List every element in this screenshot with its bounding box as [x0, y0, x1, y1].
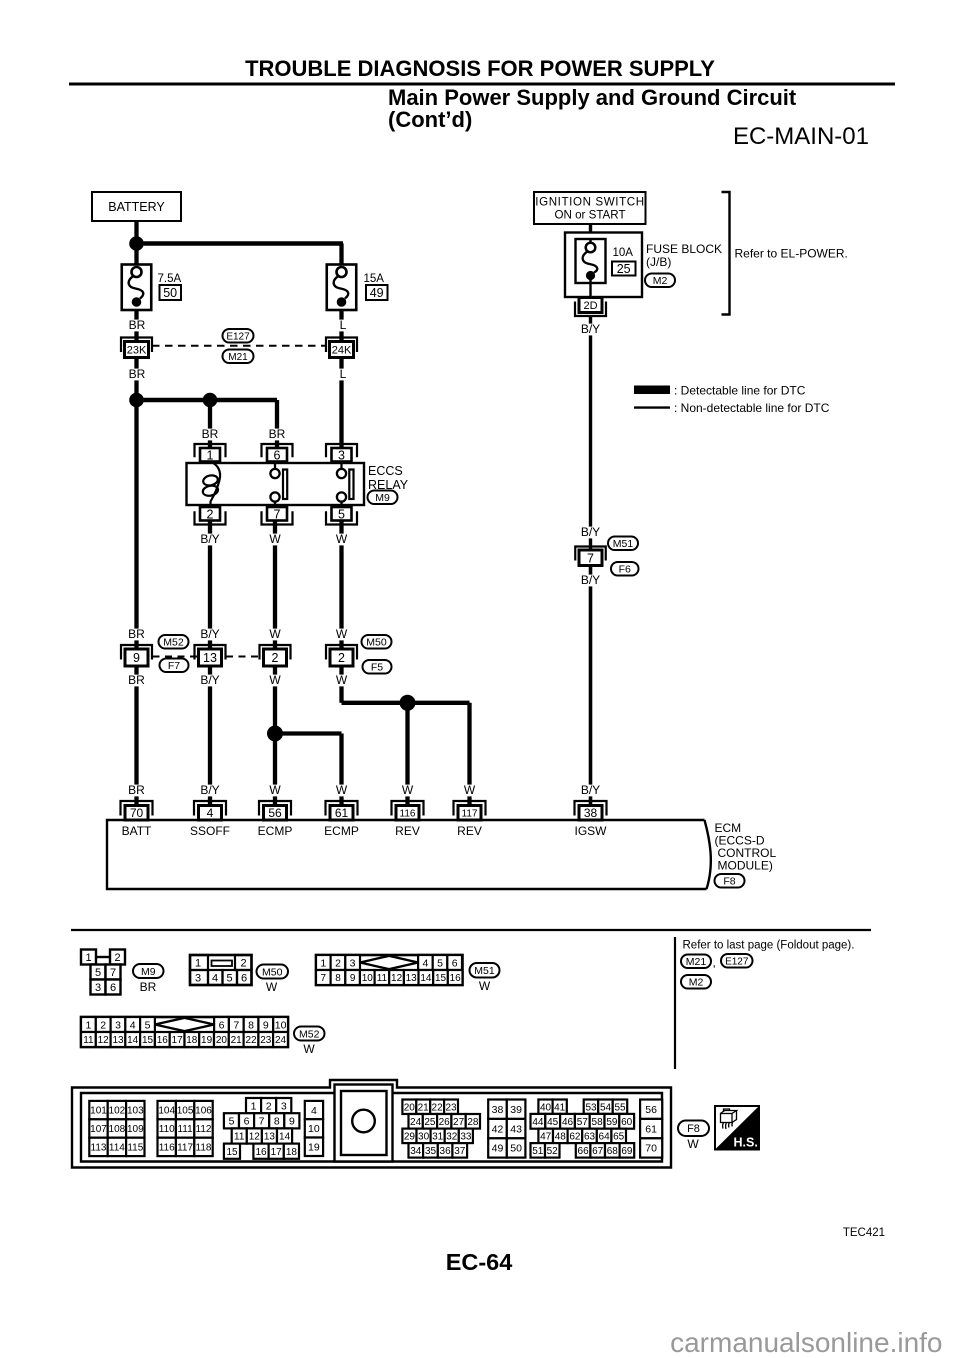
svg-text:45: 45	[547, 1117, 559, 1128]
svg-text:5: 5	[145, 1019, 151, 1031]
svg-text:101: 101	[90, 1106, 107, 1117]
relay pin 2	[195, 507, 226, 525]
connector 24K	[326, 338, 357, 358]
svg-text:3: 3	[95, 982, 101, 994]
svg-text:BR: BR	[128, 673, 145, 687]
svg-text:F6: F6	[619, 564, 631, 576]
svg-text:21: 21	[231, 1035, 243, 1046]
F8 cell group 40-69	[538, 1100, 566, 1114]
wire W relay pin 5 to connector 2	[339, 519, 343, 650]
F8 cell group 56-70	[640, 1100, 662, 1119]
wire W horizontal branch to REV	[342, 701, 470, 705]
svg-text:18: 18	[186, 1035, 198, 1046]
junction battery bus	[129, 236, 144, 251]
wire label B/Y below connector 13	[198, 673, 223, 687]
svg-text:BR: BR	[128, 627, 145, 641]
face badge M9	[133, 964, 164, 978]
svg-text:IGNITION SWITCH: IGNITION SWITCH	[535, 196, 644, 209]
svg-text:M52: M52	[299, 1028, 320, 1040]
relay pin 6	[262, 444, 293, 462]
wire fuse 25 to connector 2D	[589, 279, 592, 299]
svg-text:8: 8	[248, 1019, 254, 1031]
connector badge M51	[608, 537, 638, 551]
svg-text:16: 16	[450, 973, 462, 984]
svg-text:1: 1	[85, 952, 91, 964]
bolt hole circle	[352, 1110, 375, 1133]
wire L 24K to relay pin 3	[339, 356, 343, 455]
svg-text:Refer to last page (Foldout pa: Refer to last page (Foldout page).	[683, 940, 855, 952]
connector badge F6	[611, 562, 639, 576]
wire label BR above connector 9	[128, 627, 145, 641]
foldout divider	[674, 937, 676, 1069]
F8 cell group 101-115	[89, 1101, 144, 1119]
bolt hole box	[341, 1091, 387, 1155]
wire label B/Y below connector 7	[578, 573, 603, 587]
svg-text:6: 6	[241, 973, 247, 985]
svg-text:70: 70	[130, 806, 144, 820]
connector badge M52	[159, 635, 189, 649]
svg-text:M51: M51	[474, 965, 495, 977]
connector M52-9	[121, 645, 152, 666]
svg-text:67: 67	[592, 1146, 604, 1157]
svg-text:38: 38	[584, 806, 598, 820]
svg-text:5: 5	[437, 957, 443, 969]
wire label W above connector 2	[269, 627, 281, 641]
svg-text:12: 12	[249, 1132, 261, 1143]
svg-text:W: W	[336, 532, 348, 546]
svg-text:20: 20	[404, 1102, 416, 1113]
svg-text:BR: BR	[202, 427, 219, 441]
M51 diamond	[360, 956, 418, 969]
svg-text:17: 17	[271, 1147, 283, 1158]
svg-text:14: 14	[127, 1035, 139, 1046]
svg-text:68: 68	[607, 1146, 619, 1157]
svg-text:EC-MAIN-01: EC-MAIN-01	[733, 123, 869, 150]
value box 25	[612, 262, 636, 276]
svg-text:TROUBLE DIAGNOSIS FOR POWER SU: TROUBLE DIAGNOSIS FOR POWER SUPPLY	[245, 56, 715, 81]
svg-text:7.5A: 7.5A	[158, 273, 182, 285]
svg-text:117: 117	[462, 808, 478, 819]
connector badge F5	[363, 660, 392, 674]
wire to relay pin 6	[275, 400, 279, 455]
F8 cell group 4-19	[305, 1101, 323, 1119]
svg-text:26: 26	[439, 1117, 451, 1128]
svg-text:117: 117	[177, 1143, 193, 1154]
svg-text:F5: F5	[371, 662, 383, 674]
relay pin 3	[326, 444, 357, 462]
svg-text:23: 23	[445, 1102, 457, 1113]
svg-text:6: 6	[274, 448, 281, 462]
svg-text:W: W	[336, 783, 348, 797]
svg-text:5: 5	[229, 1116, 235, 1128]
connector badge F8	[715, 874, 745, 888]
legend detectable line	[634, 386, 670, 395]
svg-text:102: 102	[109, 1106, 126, 1117]
svg-text:3: 3	[350, 957, 356, 969]
svg-text:11: 11	[234, 1132, 245, 1143]
wire label W below connector 2	[269, 673, 281, 687]
wire to relay pin 1	[208, 400, 212, 455]
foldout badge M2	[681, 975, 711, 989]
svg-text:L: L	[340, 318, 347, 332]
face color W	[266, 980, 278, 994]
wire W connector 2 down	[339, 663, 343, 703]
ECM pin 56	[259, 801, 291, 820]
svg-text:31: 31	[432, 1131, 444, 1142]
relay coil	[202, 462, 220, 507]
svg-text:ECCS: ECCS	[368, 464, 403, 478]
wire label BR above relay pin 6	[268, 427, 285, 441]
wire B/Y 2D to connector M51-7	[589, 315, 592, 551]
junction W REV branch	[400, 695, 416, 711]
svg-text:B/Y: B/Y	[200, 673, 219, 687]
connector face M51	[316, 955, 463, 985]
svg-text:116: 116	[400, 808, 416, 819]
svg-text:24: 24	[410, 1117, 422, 1128]
svg-text:6: 6	[244, 1116, 250, 1128]
svg-text:W: W	[269, 673, 281, 687]
svg-text:REV: REV	[395, 824, 420, 838]
legend non-detectable line	[634, 406, 670, 408]
svg-text:M50: M50	[366, 637, 387, 649]
wire label B/Y below 2D	[578, 322, 603, 336]
connector badge M9	[368, 491, 398, 505]
ECM pin name ECMP 61	[324, 824, 359, 838]
svg-text:106: 106	[195, 1106, 212, 1117]
svg-text:2: 2	[100, 1019, 106, 1031]
svg-text:10: 10	[308, 1123, 320, 1135]
svg-text:49: 49	[492, 1143, 504, 1155]
svg-text:3: 3	[115, 1019, 121, 1031]
face badge M52	[294, 1027, 325, 1041]
face badge M51	[470, 963, 500, 978]
svg-text:7: 7	[274, 507, 281, 521]
svg-text:7: 7	[587, 551, 594, 565]
svg-text:59: 59	[606, 1117, 618, 1128]
svg-text:M9: M9	[375, 492, 390, 504]
H.S. data link logo	[715, 1106, 759, 1150]
svg-text:34: 34	[410, 1146, 422, 1157]
svg-text:43: 43	[510, 1123, 522, 1135]
svg-text:15: 15	[226, 1147, 238, 1158]
svg-text:33: 33	[460, 1131, 472, 1142]
connector badge M2	[645, 274, 675, 288]
svg-text:103: 103	[127, 1106, 144, 1117]
fuse F49 15A	[327, 265, 357, 311]
header rule	[69, 83, 895, 86]
wire label B/Y above ECM pin 38	[578, 783, 603, 797]
svg-text:M51: M51	[613, 538, 634, 550]
svg-text:8: 8	[274, 1116, 280, 1128]
dashed line connector 9 to 13	[153, 656, 199, 658]
wire label W below relay pin 7	[269, 532, 281, 546]
svg-text:24K: 24K	[332, 344, 352, 356]
svg-text:3: 3	[338, 448, 345, 462]
wire label BR below 23K	[128, 367, 145, 381]
svg-text:23: 23	[260, 1035, 272, 1046]
svg-text:L: L	[340, 367, 347, 381]
svg-text:13: 13	[112, 1035, 124, 1046]
svg-text:61: 61	[645, 1123, 657, 1135]
svg-text:15: 15	[142, 1035, 154, 1046]
connector face M9	[81, 950, 125, 995]
face color BR	[139, 980, 156, 994]
svg-text:REV: REV	[457, 824, 482, 838]
wire B/Y connector 7 to ECM pin 38	[589, 563, 593, 806]
svg-text:40: 40	[540, 1102, 552, 1113]
ECM pin name REV	[395, 824, 420, 838]
svg-text:2: 2	[114, 952, 120, 964]
svg-text:2: 2	[266, 1100, 272, 1112]
svg-text:B/Y: B/Y	[581, 322, 600, 336]
svg-text:W: W	[464, 783, 476, 797]
svg-text:IGSW: IGSW	[575, 824, 608, 838]
svg-text:113: 113	[91, 1143, 107, 1154]
svg-text:41: 41	[554, 1102, 566, 1113]
svg-text:50: 50	[163, 286, 177, 300]
battery B1	[92, 192, 181, 221]
svg-text:16: 16	[255, 1147, 267, 1158]
svg-text:: Detectable line for DTC: : Detectable line for DTC	[674, 384, 806, 398]
svg-text:W: W	[303, 1042, 315, 1056]
relay pin 7	[262, 507, 293, 525]
svg-text:BR: BR	[129, 318, 146, 332]
ECCS relay M9 box	[187, 463, 365, 505]
svg-text:E127: E127	[725, 956, 749, 967]
svg-text:7: 7	[110, 967, 116, 979]
svg-text:38: 38	[492, 1104, 504, 1116]
svg-text:B/Y: B/Y	[200, 627, 219, 641]
fuse block J/B box	[565, 233, 642, 298]
center module tall box	[335, 1085, 393, 1162]
svg-text:17: 17	[172, 1035, 184, 1046]
wire label BR above relay pin 1	[201, 427, 218, 441]
svg-text:FUSE BLOCK: FUSE BLOCK	[646, 242, 722, 256]
wire label W above connector 2 F5	[336, 627, 348, 641]
svg-text:M52: M52	[163, 637, 184, 649]
svg-text:12: 12	[98, 1035, 110, 1046]
ECM connector face inner box	[81, 1093, 662, 1162]
svg-text:55: 55	[614, 1102, 626, 1113]
face color W	[479, 979, 491, 993]
connector 2D	[575, 298, 606, 317]
M52 diamond	[155, 1018, 214, 1031]
svg-text:56: 56	[645, 1104, 657, 1116]
svg-text:15: 15	[435, 973, 447, 984]
svg-text:7: 7	[233, 1019, 239, 1031]
connector badge F7	[160, 659, 189, 673]
svg-text:carmanualsonline.info: carmanualsonline.info	[670, 1327, 942, 1358]
F8 cell group 104-118	[158, 1101, 213, 1119]
svg-text:2: 2	[240, 958, 246, 970]
svg-text:4: 4	[130, 1019, 136, 1031]
svg-text:47: 47	[540, 1132, 552, 1143]
svg-text:9: 9	[350, 973, 356, 984]
svg-text:24: 24	[275, 1035, 287, 1046]
ECM pin name ECMP	[258, 824, 293, 838]
svg-text:60: 60	[621, 1117, 633, 1128]
svg-text:(J/B): (J/B)	[646, 255, 671, 269]
svg-text:19: 19	[201, 1035, 213, 1046]
svg-text:BATT: BATT	[122, 824, 152, 838]
svg-text:M21: M21	[686, 956, 707, 968]
face color W	[303, 1042, 315, 1056]
svg-text:16: 16	[157, 1035, 169, 1046]
svg-text:M9: M9	[141, 966, 156, 978]
wire label L above 24K	[338, 318, 348, 332]
svg-text:52: 52	[547, 1146, 559, 1157]
ECM pin name IGSW	[574, 824, 607, 838]
wire W relay pin 7 to connector 2	[273, 519, 277, 650]
svg-text:13: 13	[264, 1132, 276, 1143]
ECM pin 61	[326, 801, 358, 820]
svg-text:110: 110	[159, 1124, 175, 1135]
svg-text:116: 116	[159, 1143, 175, 1154]
svg-text:4: 4	[311, 1105, 317, 1117]
svg-text:57: 57	[577, 1117, 589, 1128]
svg-text:2: 2	[272, 651, 279, 665]
junction BR column	[129, 393, 144, 408]
wire label BR above 23K	[128, 318, 145, 332]
svg-text:22: 22	[432, 1102, 444, 1113]
svg-text:H.S.: H.S.	[734, 1136, 758, 1150]
svg-text:14: 14	[279, 1132, 291, 1143]
relay contact pins 3-5	[337, 461, 354, 507]
ECM pin 116	[392, 801, 424, 820]
ignition switch box	[534, 192, 646, 224]
svg-text:F8: F8	[723, 876, 735, 888]
svg-text:2: 2	[338, 651, 345, 665]
svg-text:W: W	[336, 627, 348, 641]
svg-text:W: W	[479, 979, 491, 993]
svg-text:BR: BR	[128, 783, 145, 797]
svg-text:3: 3	[281, 1100, 287, 1112]
svg-text:6: 6	[110, 982, 116, 994]
F8 cell group 20-37	[402, 1100, 458, 1115]
wire bus down to fuse 49	[339, 244, 343, 266]
svg-text:F8: F8	[687, 1123, 700, 1135]
svg-text:: Non-detectable line for DTC: : Non-detectable line for DTC	[674, 401, 830, 415]
wire bus to ECCS relay	[137, 398, 278, 403]
svg-text:37: 37	[454, 1146, 466, 1157]
svg-text:ECMP: ECMP	[324, 824, 359, 838]
svg-text:1: 1	[195, 958, 201, 970]
face badge F8	[678, 1121, 709, 1137]
svg-text:23K: 23K	[127, 344, 147, 356]
wire BR connector 9 to ECM pin 70	[134, 663, 138, 806]
svg-text:M2: M2	[689, 977, 704, 989]
svg-text:49: 49	[370, 286, 384, 300]
wire label B/Y above ECM pin 4	[198, 783, 223, 797]
connector M52-13	[195, 645, 226, 666]
svg-text:21: 21	[418, 1102, 430, 1113]
svg-text:B/Y: B/Y	[581, 525, 600, 539]
svg-text:W: W	[336, 673, 348, 687]
wire label W below connector 2 F5	[336, 673, 348, 687]
connector face M52	[81, 1017, 288, 1047]
wire BR 23K to connector M52-9	[134, 356, 138, 650]
svg-text:109: 109	[127, 1124, 144, 1135]
svg-text:58: 58	[592, 1117, 604, 1128]
svg-text:ECMP: ECMP	[258, 824, 293, 838]
connector face M50	[190, 955, 252, 985]
svg-text:62: 62	[569, 1132, 581, 1143]
ECM connector face outer box	[72, 1080, 671, 1168]
wire label W above ECM pin 117	[464, 783, 476, 797]
wire label L below 24K	[338, 367, 348, 381]
svg-text:105: 105	[177, 1106, 194, 1117]
relay contact pins 6-7	[270, 461, 287, 507]
fuse F50 7.5A	[122, 265, 152, 311]
connector badge E127	[223, 329, 254, 343]
svg-text:48: 48	[555, 1132, 567, 1143]
svg-text:(Cont’d): (Cont’d)	[388, 107, 472, 132]
svg-text:114: 114	[109, 1143, 125, 1154]
svg-text:13: 13	[406, 973, 418, 984]
svg-text:25: 25	[617, 262, 631, 276]
svg-text:2: 2	[207, 507, 214, 521]
connector badge M50	[362, 635, 392, 649]
svg-text:63: 63	[584, 1132, 596, 1143]
svg-text:66: 66	[578, 1146, 590, 1157]
wire label BR below connector 9	[128, 673, 145, 687]
ECM pin name SSOFF	[190, 824, 230, 838]
F8 cell group 38-50	[488, 1100, 525, 1119]
ECM pin 70	[121, 801, 153, 820]
svg-text:6: 6	[452, 957, 458, 969]
svg-text:B/Y: B/Y	[200, 532, 219, 546]
svg-text:25: 25	[424, 1117, 436, 1128]
svg-text:27: 27	[453, 1117, 465, 1128]
wire label B/Y below relay pin 2	[198, 532, 223, 546]
svg-text:EC-64: EC-64	[446, 1249, 513, 1275]
svg-text:2: 2	[335, 957, 341, 969]
svg-text:B/Y: B/Y	[200, 783, 219, 797]
svg-text:42: 42	[492, 1123, 504, 1135]
face badge M50	[257, 965, 289, 979]
svg-text:2D: 2D	[583, 300, 597, 312]
svg-text:35: 35	[425, 1146, 437, 1157]
svg-text:15A: 15A	[364, 273, 385, 285]
svg-text:22: 22	[245, 1035, 257, 1046]
wire W down to ECM pin 61	[339, 734, 343, 807]
svg-text:28: 28	[467, 1117, 479, 1128]
svg-text:13: 13	[203, 651, 217, 665]
svg-text:Refer to EL-POWER.: Refer to EL-POWER.	[735, 247, 848, 261]
svg-text:69: 69	[621, 1146, 633, 1157]
svg-text:70: 70	[645, 1143, 657, 1155]
face color W	[687, 1137, 699, 1151]
svg-text:MODULE): MODULE)	[718, 859, 773, 873]
svg-text:BR: BR	[269, 427, 286, 441]
svg-text:61: 61	[335, 806, 349, 820]
separator rule	[71, 929, 871, 931]
wire label W below relay pin 5	[336, 532, 348, 546]
svg-text:10A: 10A	[613, 247, 634, 259]
svg-text:F7: F7	[168, 660, 180, 672]
svg-text:9: 9	[289, 1116, 295, 1128]
wire label W above ECM pin 61	[336, 783, 348, 797]
junction W ECMP branch	[267, 726, 283, 742]
svg-text:B/Y: B/Y	[581, 783, 600, 797]
svg-text:32: 32	[446, 1131, 458, 1142]
svg-text:,: ,	[713, 956, 716, 970]
svg-text:6: 6	[219, 1019, 225, 1031]
wire B/Y connector 13 to ECM pin 4	[208, 663, 212, 806]
svg-text:M2: M2	[653, 275, 668, 287]
svg-text:65: 65	[613, 1132, 625, 1143]
connector badge M21	[223, 350, 254, 364]
